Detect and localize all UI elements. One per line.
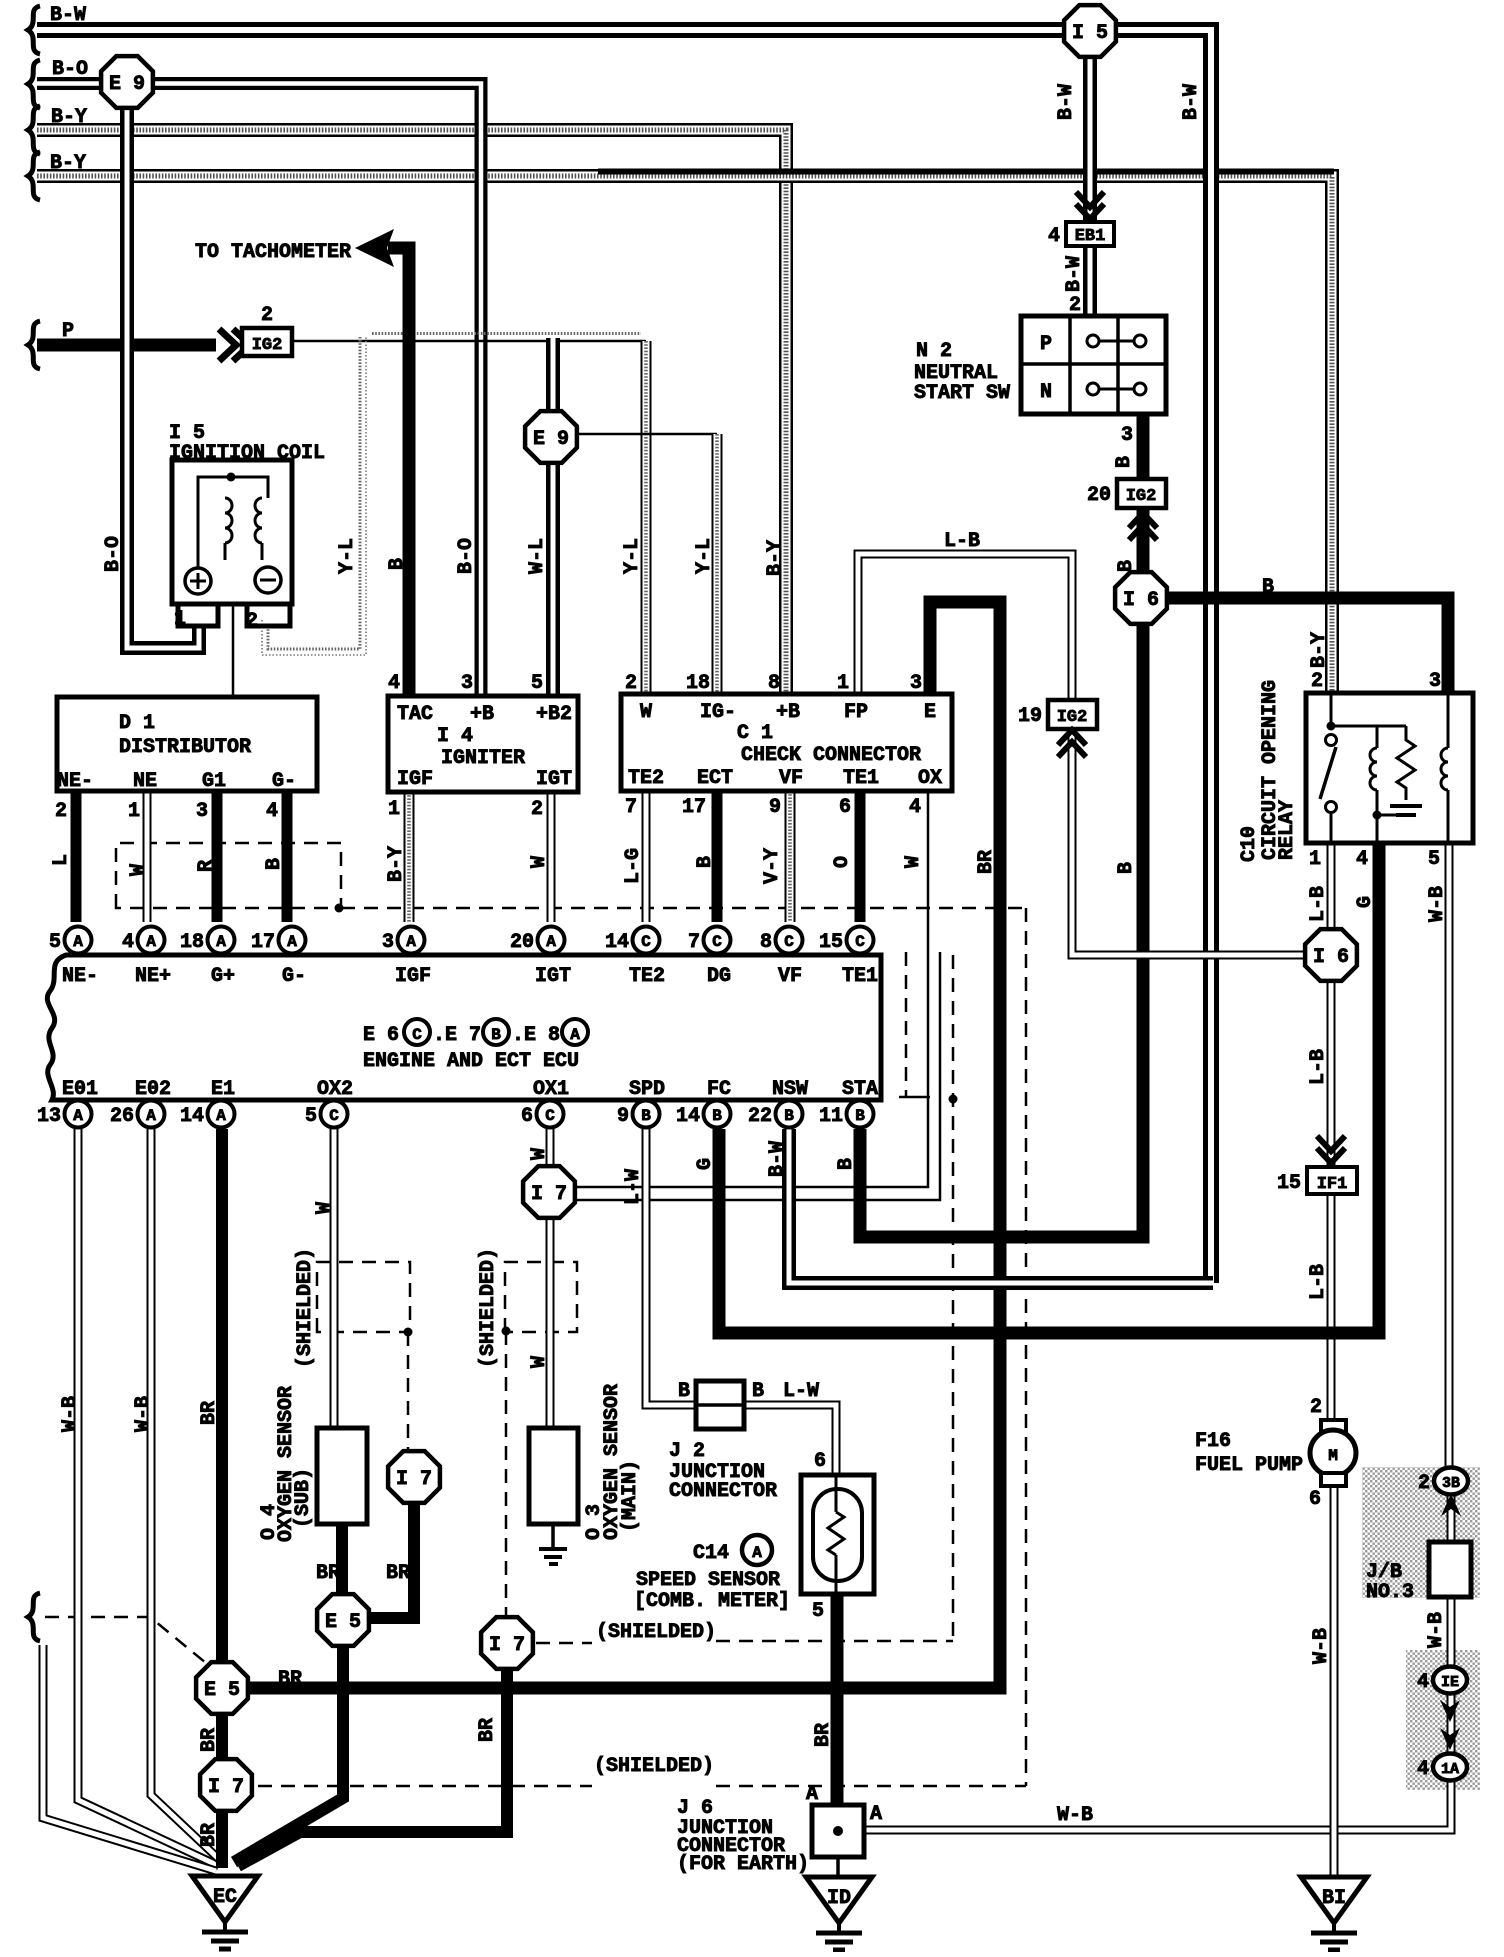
svg-text:B: B xyxy=(386,558,409,570)
svg-text:22: 22 xyxy=(748,1105,772,1128)
ECU top pin 3(A) xyxy=(398,927,425,954)
wire BR from I7 main sensor down to earth bus and EC xyxy=(238,1668,507,1866)
svg-text:B: B xyxy=(1113,456,1136,468)
svg-text:ENGINE AND ECT ECU: ENGINE AND ECT ECU xyxy=(363,1050,579,1073)
svg-text:RELAY: RELAY xyxy=(1276,800,1299,860)
svg-text:B: B xyxy=(1262,576,1274,599)
svg-text:NE-: NE- xyxy=(57,770,93,793)
svg-text:B-O: B-O xyxy=(52,58,88,81)
arrow chevrons up into IG2 19 xyxy=(1058,730,1086,745)
ECU top pin 15(C) xyxy=(847,927,874,954)
svg-text:(SHIELDED): (SHIELDED) xyxy=(294,1248,317,1368)
svg-text:15: 15 xyxy=(819,931,843,954)
arrow up into connector 3B xyxy=(1441,1494,1461,1516)
svg-text:4: 4 xyxy=(909,796,921,819)
svg-text:Y-L: Y-L xyxy=(621,538,644,574)
ECU top pin 7(C) xyxy=(704,927,731,954)
shield dashed line from distributor box to right xyxy=(341,907,1026,910)
svg-text:E 9: E 9 xyxy=(109,73,145,96)
svg-text:BR: BR xyxy=(198,1728,221,1752)
svg-text:+B2: +B2 xyxy=(536,703,572,726)
svg-text:IGT: IGT xyxy=(535,965,571,988)
svg-text:2: 2 xyxy=(625,672,637,695)
wire L-G check connector TE2 to ECU xyxy=(642,791,651,922)
svg-text:IGNITION COIL: IGNITION COIL xyxy=(169,442,325,465)
svg-text:B-Y: B-Y xyxy=(51,106,87,129)
svg-text:B-W: B-W xyxy=(1055,84,1078,120)
ignition coil I5 box xyxy=(172,460,292,604)
svg-text:3: 3 xyxy=(1121,424,1133,447)
svg-text:2: 2 xyxy=(1069,294,1081,317)
svg-text:C: C xyxy=(641,933,651,951)
relay internals coil and resistor xyxy=(1376,726,1379,748)
svg-text:N: N xyxy=(1040,381,1052,404)
connector octagon E5 oxygen sub xyxy=(317,1594,369,1646)
svg-text:6: 6 xyxy=(1309,1488,1321,1511)
svg-text:I 7: I 7 xyxy=(208,1776,244,1799)
ground EC xyxy=(192,1876,258,1922)
junction connector J2 box xyxy=(696,1381,744,1429)
arrow chevrons down into EB1 xyxy=(1076,192,1104,207)
svg-text:OX1: OX1 xyxy=(533,1078,569,1101)
wire BR from E5 to earth xyxy=(234,1644,343,1862)
svg-text:W: W xyxy=(902,856,925,868)
shield gray line from ignition coil to IG2 wire xyxy=(372,332,641,335)
ECU bottom pin 22(B) xyxy=(776,1101,803,1128)
ECU box (engine and ECT ECU) xyxy=(47,955,881,1100)
shield dashed tick at ECU right xyxy=(899,1096,930,1099)
svg-text:I 6: I 6 xyxy=(1123,589,1159,612)
wire B-W I5 to EB1 to neutral start switch xyxy=(1083,58,1097,318)
wire V-Y check connector VF to ECU xyxy=(785,791,796,922)
svg-text:5: 5 xyxy=(812,1600,824,1623)
svg-text:TE2: TE2 xyxy=(629,965,665,988)
svg-text:B: B xyxy=(641,1107,651,1125)
svg-text:E: E xyxy=(924,701,936,724)
continuation brace B-W xyxy=(28,6,40,54)
ECU bottom pin 14(A) xyxy=(208,1101,235,1128)
svg-text:G: G xyxy=(694,1158,717,1170)
wire B (tachometer feed) from arrow down to igniter TAC xyxy=(388,248,409,696)
svg-text:A: A xyxy=(216,1107,226,1125)
svg-text:19: 19 xyxy=(1018,705,1042,728)
svg-text:L-B: L-B xyxy=(1307,1049,1330,1085)
svg-text:A: A xyxy=(216,933,226,951)
svg-text:14: 14 xyxy=(605,931,629,954)
speed sensor internals xyxy=(813,1489,862,1581)
svg-text:3: 3 xyxy=(1429,670,1441,693)
shield dashed vertical right of ECU x906 xyxy=(905,952,908,1098)
wire B-Y bus 2 from left to circuit opening relay pin 2 xyxy=(37,176,1332,693)
svg-text:EC: EC xyxy=(213,1886,237,1909)
ignition coil internals xyxy=(198,477,268,568)
svg-text:20: 20 xyxy=(1087,484,1111,507)
wire W-B fuel pump to body ground BI xyxy=(1330,1485,1339,1876)
connector IG2 number 2 xyxy=(242,328,292,356)
wire L-W from J2 to speed sensor xyxy=(743,1405,836,1476)
svg-text:O: O xyxy=(831,856,854,868)
svg-text:5: 5 xyxy=(531,672,543,695)
connector oval 1A xyxy=(1433,1754,1467,1781)
svg-text:1: 1 xyxy=(174,608,186,631)
svg-text:ID: ID xyxy=(827,1887,851,1910)
svg-text:BI: BI xyxy=(1322,1887,1346,1910)
wire B neutral start switch pin 3 through IG2 20 to I6 to ECU STA xyxy=(860,414,1143,1237)
ECU top pin 18(A) xyxy=(208,927,235,954)
ECU bottom pin 6(C) xyxy=(537,1101,564,1128)
connector octagon I7 oxygen main xyxy=(481,1617,533,1669)
svg-text:BR: BR xyxy=(386,1562,410,1585)
svg-text:4: 4 xyxy=(1417,1758,1429,1781)
svg-text:L-B: L-B xyxy=(1307,886,1330,922)
svg-text:G-: G- xyxy=(282,965,306,988)
svg-text:NSW: NSW xyxy=(772,1078,808,1101)
shield dashed box around OX2 wire xyxy=(317,1262,410,1332)
svg-text:14: 14 xyxy=(676,1105,700,1128)
svg-text:G-: G- xyxy=(272,770,296,793)
wire W ECU OX2 to oxygen sensor sub xyxy=(330,1129,339,1428)
svg-text:E 6: E 6 xyxy=(363,1024,399,1047)
svg-text:A: A xyxy=(73,933,83,951)
svg-text:L-B: L-B xyxy=(944,530,980,553)
svg-text:I 7: I 7 xyxy=(396,1468,432,1491)
wire G- distributor to ECU xyxy=(282,791,293,922)
svg-text:C: C xyxy=(712,933,722,951)
wire W-L from E9 to igniter +B2 xyxy=(546,460,560,696)
svg-text:W-B: W-B xyxy=(1425,1612,1448,1648)
ECU top pin 4(A) xyxy=(138,927,165,954)
wire L-B relay pin 1 down through I6 and IF1 to fuel pump xyxy=(1327,843,1336,1420)
svg-text:TE1: TE1 xyxy=(842,965,878,988)
wire B-Y igniter IGF to ECU xyxy=(404,792,415,922)
shield dashed box around distributor wires xyxy=(116,843,341,908)
svg-text:A: A xyxy=(73,1107,83,1125)
svg-text:15: 15 xyxy=(1277,1172,1301,1195)
continuation brace B-Y 2 xyxy=(28,152,40,200)
svg-text:V-Y: V-Y xyxy=(761,848,784,884)
oxygen sensor main O3 box xyxy=(529,1428,578,1524)
wire B speed sensor pin 5 to J6 xyxy=(831,1594,844,1808)
svg-text:C: C xyxy=(545,1107,555,1125)
continuation brace B-Y 1 xyxy=(28,106,40,154)
svg-text:L: L xyxy=(50,854,73,866)
shield junction dot distributor box xyxy=(335,904,344,913)
shield gray outline around ignition coil secondary xyxy=(268,337,360,649)
wire from J6 to ground ID xyxy=(836,1857,840,1876)
outer shield dashed bottom from I7 to corner xyxy=(258,1785,1026,1788)
svg-text:A: A xyxy=(146,933,156,951)
svg-text:I 5: I 5 xyxy=(1072,22,1108,45)
junction block J/B No.3 box xyxy=(1429,1542,1471,1597)
svg-text:7: 7 xyxy=(688,931,700,954)
svg-text:20: 20 xyxy=(510,931,534,954)
svg-text:FP: FP xyxy=(844,701,868,724)
ECU bottom pin 13(A) xyxy=(65,1101,92,1128)
wire G1 distributor to ECU xyxy=(212,791,223,922)
svg-text:IGNITER: IGNITER xyxy=(441,747,525,770)
svg-text:+B: +B xyxy=(470,703,494,726)
svg-text:17: 17 xyxy=(251,931,275,954)
svg-text:CONNECTOR: CONNECTOR xyxy=(669,1480,777,1503)
wire W-B relay pin 5 down to J/B No.3 xyxy=(1445,843,1454,1468)
svg-text:(SHIELDED): (SHIELDED) xyxy=(594,1755,714,1778)
svg-text:B: B xyxy=(491,1026,501,1044)
circuit opening relay C10 box xyxy=(1306,693,1473,843)
arrow chevrons up into IG2 20 xyxy=(1129,513,1157,528)
wire BR oxygen sensor sub pin 2 to E5 xyxy=(336,1524,348,1596)
svg-text:C: C xyxy=(855,933,865,951)
arrow chevrons into IG2 xyxy=(219,329,236,361)
svg-text:W: W xyxy=(528,1356,551,1368)
svg-text:18: 18 xyxy=(686,672,710,695)
ECU top pin 5(A) xyxy=(65,927,92,954)
svg-text:TE2: TE2 xyxy=(628,767,664,790)
svg-text:B: B xyxy=(835,1158,858,1170)
relay internals second coil xyxy=(1447,695,1450,748)
shaded area around connectors IE and 1A xyxy=(1406,1650,1480,1790)
outer shield dashed vertical right of ECU xyxy=(1025,908,1028,1786)
svg-text:N 2: N 2 xyxy=(916,340,952,363)
continuation brace shielded bottom left xyxy=(28,1593,40,1641)
wire B-W bus from left through I5 down right side xyxy=(37,30,1211,1283)
shield junction dot OX2 xyxy=(404,1328,413,1337)
svg-text:W-B: W-B xyxy=(132,1396,155,1432)
svg-text:B: B xyxy=(1115,862,1138,874)
svg-text:9: 9 xyxy=(617,1105,629,1128)
arrow chevrons down into IF1 xyxy=(1317,1136,1345,1151)
svg-text:B: B xyxy=(855,1107,865,1125)
wire from E9 octagon east then down to check connector IG- xyxy=(576,433,717,436)
svg-text:2: 2 xyxy=(246,610,258,633)
svg-text:C: C xyxy=(412,1026,422,1044)
neutral start switch contacts xyxy=(1087,335,1099,347)
svg-text:(MAIN): (MAIN) xyxy=(619,1460,642,1532)
check connector C1 box xyxy=(621,694,952,791)
connector IG2 number 19 xyxy=(1048,700,1097,729)
svg-text:1A: 1A xyxy=(1441,1761,1459,1778)
svg-text:18: 18 xyxy=(180,931,204,954)
svg-text:BR: BR xyxy=(198,1401,221,1425)
wire W-B ECU E01 to earth xyxy=(78,1129,219,1866)
speed sensor C14 box xyxy=(801,1475,874,1594)
svg-text:TE1: TE1 xyxy=(843,767,879,790)
svg-text:E 9: E 9 xyxy=(533,428,569,451)
svg-text:(SHIELDED): (SHIELDED) xyxy=(596,1621,716,1644)
svg-text:OX2: OX2 xyxy=(317,1078,353,1101)
svg-text:IG2: IG2 xyxy=(1057,708,1088,727)
connector IF1 xyxy=(1307,1167,1357,1194)
svg-text:IGF: IGF xyxy=(395,965,431,988)
wire W ECU OX1 to I7 and oxygen sensor main xyxy=(546,1129,555,1428)
igniter I4 box xyxy=(388,696,578,792)
ECU top pin 8(C) xyxy=(776,927,803,954)
svg-text:4: 4 xyxy=(1048,225,1060,248)
svg-text:[COMB. METER]: [COMB. METER] xyxy=(634,1590,790,1613)
svg-text:TAC: TAC xyxy=(397,703,433,726)
svg-text:I 6: I 6 xyxy=(1313,946,1349,969)
svg-text:B: B xyxy=(784,1107,794,1125)
svg-text:1: 1 xyxy=(1309,848,1321,871)
fuel pump F16 xyxy=(1321,1420,1346,1433)
shield dashed stub above OX2 sensor box xyxy=(407,1332,410,1452)
svg-text:W-L: W-L xyxy=(526,538,549,574)
svg-text:3: 3 xyxy=(461,672,473,695)
svg-text:IGF: IGF xyxy=(397,768,433,791)
arrowhead to tachometer xyxy=(355,229,394,267)
svg-text:L-B: L-B xyxy=(1307,1264,1330,1300)
svg-text:W: W xyxy=(127,864,150,876)
svg-text:D 1: D 1 xyxy=(119,712,155,735)
svg-text:Y-L: Y-L xyxy=(336,538,359,574)
svg-text:G+: G+ xyxy=(211,965,235,988)
svg-text:IG2: IG2 xyxy=(252,336,283,355)
svg-text:BR: BR xyxy=(198,1823,221,1847)
shield junction dot on inner dashed xyxy=(949,1095,958,1104)
wire L-W ECU SPD to junction connector J2 xyxy=(646,1129,698,1405)
wire NE distributor to ECU xyxy=(143,791,152,922)
svg-text:R: R xyxy=(195,860,218,872)
shield junction dot OX1 xyxy=(502,1327,511,1336)
svg-text:BR: BR xyxy=(278,1668,302,1691)
oxygen sensor sub O4 box xyxy=(317,1428,367,1524)
connector octagon E9 top left xyxy=(101,56,153,108)
svg-text:E01: E01 xyxy=(62,1078,98,1101)
svg-text:B-Y: B-Y xyxy=(385,846,408,882)
svg-text:I 7: I 7 xyxy=(531,1183,567,1206)
svg-text:1: 1 xyxy=(388,798,400,821)
svg-text:IG2: IG2 xyxy=(1126,487,1157,506)
svg-text:4: 4 xyxy=(1417,1671,1429,1694)
svg-text:A: A xyxy=(406,933,416,951)
svg-text:NE+: NE+ xyxy=(135,965,171,988)
svg-text:IF1: IF1 xyxy=(1317,1175,1348,1194)
connector oval 3B xyxy=(1434,1468,1468,1495)
svg-text:8: 8 xyxy=(760,931,772,954)
svg-text:DISTRIBUTOR: DISTRIBUTOR xyxy=(119,736,251,759)
svg-text:W: W xyxy=(528,1148,551,1160)
svg-text:P: P xyxy=(1040,333,1052,356)
svg-text:26: 26 xyxy=(110,1105,134,1128)
svg-text:B-W: B-W xyxy=(766,1141,789,1177)
svg-text:BR: BR xyxy=(316,1562,340,1585)
connector octagon I6 upper xyxy=(1115,572,1167,624)
svg-text:W-B: W-B xyxy=(1057,1804,1093,1827)
svg-text:11: 11 xyxy=(819,1105,843,1128)
svg-text:L-W: L-W xyxy=(622,1169,645,1205)
ground ID xyxy=(806,1877,872,1923)
svg-text:A: A xyxy=(546,933,556,951)
svg-text:8: 8 xyxy=(768,672,780,695)
svg-text:2: 2 xyxy=(1418,1472,1430,1495)
svg-text:IG-: IG- xyxy=(700,701,736,724)
svg-text:NE-: NE- xyxy=(62,965,98,988)
connector octagon I7 oxygen sub xyxy=(388,1451,440,1503)
svg-text:6: 6 xyxy=(521,1105,533,1128)
svg-text:3: 3 xyxy=(196,800,208,823)
wire from ignition coil to distributor xyxy=(232,604,235,697)
svg-text:OX: OX xyxy=(918,767,942,790)
distributor D1 box xyxy=(57,697,317,791)
svg-text:W-B: W-B xyxy=(1426,886,1449,922)
svg-text:A: A xyxy=(870,1803,882,1826)
ECU bottom pin 5(C) xyxy=(321,1101,348,1128)
svg-text:ECT: ECT xyxy=(697,767,733,790)
wire W igniter IGT to ECU xyxy=(547,792,556,922)
svg-text:B: B xyxy=(678,1380,690,1403)
svg-text:A: A xyxy=(146,1107,156,1125)
svg-text:.E 7: .E 7 xyxy=(433,1024,481,1047)
wire O check connector TE1 to ECU xyxy=(855,791,866,922)
shield dashed box around OX1 wire xyxy=(505,1262,577,1332)
svg-text:E 5: E 5 xyxy=(325,1611,361,1634)
wire L-B from check connector FP via IG2 19 to I6 xyxy=(858,554,1306,955)
svg-text:B: B xyxy=(263,858,286,870)
junction block J/B No.3 shaded area xyxy=(1362,1467,1480,1598)
svg-text:IE: IE xyxy=(1441,1674,1459,1691)
connector octagon I6 lower xyxy=(1305,929,1357,981)
svg-text:9: 9 xyxy=(769,796,781,819)
svg-text:4: 4 xyxy=(1356,848,1368,871)
svg-text:DG: DG xyxy=(707,965,731,988)
wire B-O from E9 down to ignition coil pin 1 xyxy=(127,84,199,648)
svg-text:NO.3: NO.3 xyxy=(1366,1581,1414,1604)
svg-text:(FOR EARTH): (FOR EARTH) xyxy=(677,1853,809,1876)
svg-text:A: A xyxy=(287,933,297,951)
wire W-L from junction line down to E9 second octagon xyxy=(546,338,560,414)
svg-text:B-W: B-W xyxy=(1063,256,1086,292)
connector octagon E9 above igniter xyxy=(525,411,577,463)
svg-text:13: 13 xyxy=(37,1105,61,1128)
ground BI xyxy=(1301,1877,1367,1923)
wire after IG2 connector to check connector W xyxy=(292,340,646,343)
svg-text:W: W xyxy=(640,701,652,724)
svg-text:17: 17 xyxy=(682,796,706,819)
svg-text:1: 1 xyxy=(837,672,849,695)
svg-text:NE: NE xyxy=(133,770,157,793)
wire from O3 sensor to earth point xyxy=(551,1524,555,1548)
wire BR from I7 down then west into E5 xyxy=(370,1502,414,1618)
svg-text:1: 1 xyxy=(128,800,140,823)
svg-text:CHECK CONNECTOR: CHECK CONNECTOR xyxy=(741,744,921,767)
svg-text:TO TACHOMETER: TO TACHOMETER xyxy=(195,241,351,264)
svg-text:B-Y: B-Y xyxy=(1308,632,1331,668)
shield dashed stub above I7 main oxygen xyxy=(505,1331,508,1616)
wire B-Y bus 2 thick overlay segment xyxy=(598,169,1334,175)
svg-text:E 5: E 5 xyxy=(204,1679,240,1702)
svg-text:W-B: W-B xyxy=(59,1396,82,1432)
svg-text:2: 2 xyxy=(1311,670,1323,693)
svg-text:4: 4 xyxy=(122,931,134,954)
continuation brace P xyxy=(28,321,40,369)
relay internals switch xyxy=(1330,695,1333,724)
svg-text:B-Y: B-Y xyxy=(764,540,787,576)
svg-text:SPEED SENSOR: SPEED SENSOR xyxy=(636,1569,780,1592)
svg-text:EB1: EB1 xyxy=(1075,227,1106,246)
svg-text:(SUB): (SUB) xyxy=(292,1468,315,1528)
ECU bottom pin 9(B) xyxy=(633,1101,660,1128)
small ground at O3 sensor xyxy=(539,1547,567,1551)
svg-text:B: B xyxy=(712,1107,722,1125)
wire W check connector OX down and west to I7 xyxy=(576,791,928,1187)
svg-text:B-Y: B-Y xyxy=(50,152,86,175)
svg-text:+B: +B xyxy=(776,701,800,724)
svg-text:FC: FC xyxy=(707,1078,731,1101)
svg-text:VF: VF xyxy=(779,767,803,790)
ECU top pin 20(A) xyxy=(538,927,565,954)
connector IG2 number 20 xyxy=(1117,479,1166,508)
svg-text:SPD: SPD xyxy=(629,1078,665,1101)
wire B-O bus from left through E9 to igniter +B xyxy=(37,84,481,697)
